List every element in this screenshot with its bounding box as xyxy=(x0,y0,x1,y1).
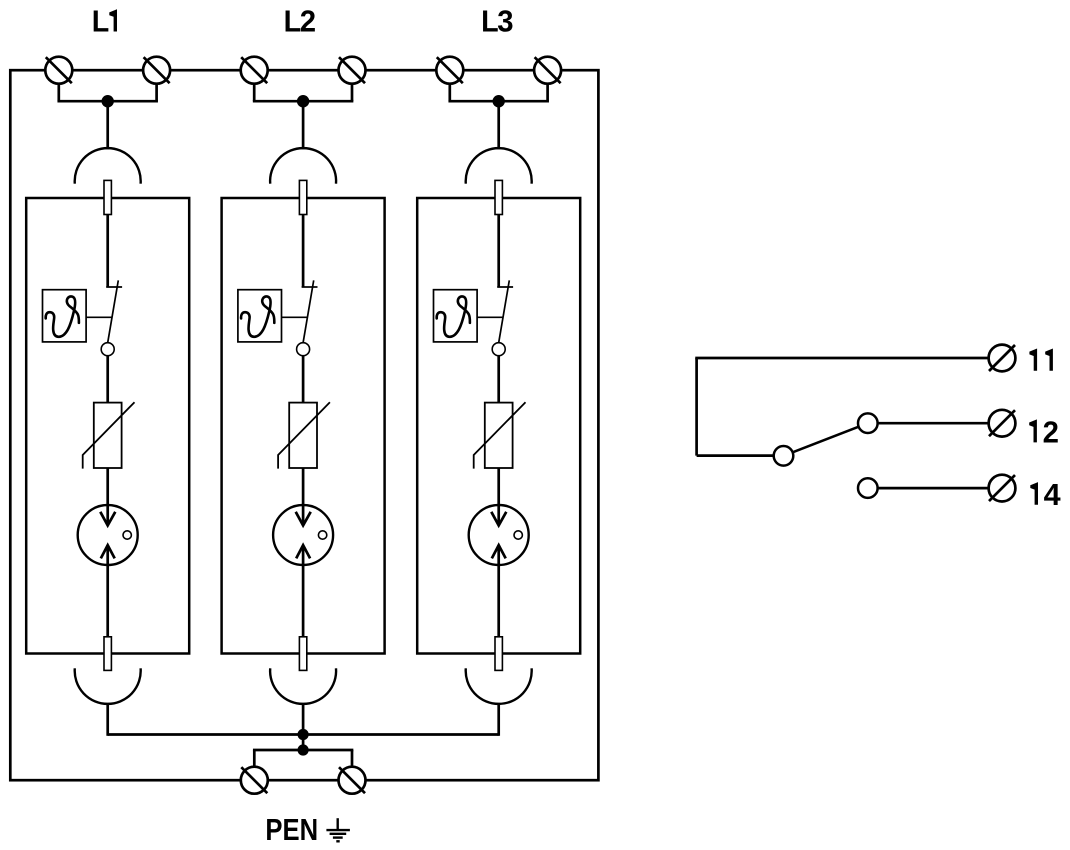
spark gap bottom electrode arrow (module 3) xyxy=(492,545,506,558)
varistor diagonal (module 1) xyxy=(83,402,135,468)
wire joining bar xyxy=(448,100,549,103)
contact pin top (module 2) xyxy=(299,180,306,214)
terminal L3 right xyxy=(534,57,561,84)
changeover switch blade xyxy=(793,427,859,453)
wire varistor to spark gap xyxy=(302,468,305,525)
wire from left terminal down xyxy=(448,84,451,102)
terminal 11 xyxy=(989,345,1016,372)
module 3 protection-module box xyxy=(417,198,580,654)
wire from right terminal down xyxy=(155,84,158,102)
wire bus to PEN branch xyxy=(302,735,305,751)
PEN branch bar xyxy=(253,749,353,752)
plug-in contact arc top (module 2) xyxy=(270,148,336,184)
label 14 xyxy=(1030,477,1060,512)
wire contact 12 to terminal 12 xyxy=(878,422,989,425)
wire varistor to spark gap xyxy=(497,468,500,525)
contact pin bottom (module 1) xyxy=(104,637,111,671)
plug-in contact arc top (module 1) xyxy=(75,148,141,184)
terminal L2 right xyxy=(339,57,366,84)
spark gap circle (module 1) xyxy=(78,505,138,565)
wire disconnector to varistor xyxy=(497,356,500,403)
terminal L1 left xyxy=(45,57,72,84)
wire junction to plug contact xyxy=(302,101,305,149)
spark gap top electrode arrow (module 1) xyxy=(100,512,115,526)
wire contact to PEN bus xyxy=(106,703,109,736)
remote signalling wire to terminal 11 xyxy=(695,357,988,360)
node L1 junction xyxy=(102,95,114,107)
PEN terminal right xyxy=(339,767,366,794)
disconnector switch blade (module 1) xyxy=(108,280,119,342)
wire joining bar xyxy=(253,100,354,103)
link thermal box to blade xyxy=(86,316,112,318)
node PEN bus junction xyxy=(298,729,309,740)
label 12 xyxy=(1029,414,1059,449)
theta (temperature) squiggle (module 1) xyxy=(46,296,79,336)
spark gap trigger electrode small circle (module 3) xyxy=(514,531,522,539)
thermal disconnect box (module 2) xyxy=(238,290,282,342)
plug-in contact arc top (module 3) xyxy=(466,148,532,184)
theta (temperature) squiggle (module 2) xyxy=(241,296,274,336)
contact circle 12 xyxy=(858,413,878,433)
wire pin to disconnector xyxy=(106,215,109,288)
disconnector moving contact circle (module 3) xyxy=(492,343,505,356)
contact pin bottom (module 3) xyxy=(495,637,502,671)
PEN terminal left xyxy=(241,767,268,794)
contact pin bottom (module 2) xyxy=(299,637,306,671)
wire spark gap to bottom pin xyxy=(302,545,305,637)
link thermal box to blade xyxy=(477,316,503,318)
plug-in contact arc bottom (module 1) xyxy=(75,668,141,704)
wire junction to plug contact xyxy=(106,101,109,149)
wire disconnector to varistor xyxy=(302,356,305,403)
svg-text:2: 2 xyxy=(1043,414,1059,449)
wire junction to plug contact xyxy=(497,101,500,149)
node L2 junction xyxy=(297,95,309,107)
terminal 14 xyxy=(989,475,1016,502)
terminal L3 left xyxy=(436,57,463,84)
changeover common contact circle xyxy=(774,446,794,466)
wire pin to disconnector xyxy=(302,215,305,288)
wire from left terminal down xyxy=(253,84,256,102)
disconnector switch blade (module 3) xyxy=(499,280,510,342)
disconnector fixed contact tick (module 3) xyxy=(497,286,513,288)
contact circle 14 xyxy=(858,478,878,498)
spark gap bottom electrode arrow (module 2) xyxy=(296,545,310,558)
disconnector fixed contact tick (module 1) xyxy=(106,286,122,288)
contact pin top (module 1) xyxy=(104,180,111,214)
device enclosure outline xyxy=(10,70,598,780)
wire to PEN terminal right xyxy=(351,750,354,768)
terminal 12 xyxy=(989,410,1016,437)
wire from left terminal down xyxy=(57,84,60,102)
wire spark gap to bottom pin xyxy=(106,545,109,637)
svg-text:PEN: PEN xyxy=(265,812,318,847)
varistor rect (module 2) xyxy=(289,403,317,468)
remote signalling left vertical wire xyxy=(695,358,698,456)
plug-in contact arc bottom (module 2) xyxy=(270,668,336,704)
thermal disconnect box (module 1) xyxy=(43,290,87,342)
wire contact to PEN bus xyxy=(497,703,500,736)
module 1 protection-module box xyxy=(26,198,189,654)
disconnector switch blade (module 2) xyxy=(303,280,314,342)
plug-in contact arc bottom (module 3) xyxy=(466,668,532,704)
wire contact to PEN bus xyxy=(302,703,305,736)
spark gap bottom electrode arrow (module 1) xyxy=(101,545,115,558)
wire from right terminal down xyxy=(546,84,549,102)
spark gap top electrode arrow (module 2) xyxy=(296,512,311,526)
disconnector moving contact circle (module 1) xyxy=(101,343,114,356)
wire to changeover common contact xyxy=(697,454,774,457)
wire spark gap to bottom pin xyxy=(497,545,500,637)
spark gap circle (module 2) xyxy=(273,505,333,565)
thermal disconnect box (module 3) xyxy=(434,290,478,342)
svg-text:L: L xyxy=(481,4,499,39)
varistor diagonal (module 2) xyxy=(278,402,330,468)
spark gap circle (module 3) xyxy=(469,505,529,565)
wire contact 14 to terminal 14 xyxy=(878,487,989,490)
wire pin to disconnector xyxy=(497,215,500,288)
spark gap top electrode arrow (module 3) xyxy=(491,512,506,526)
svg-text:2: 2 xyxy=(300,4,316,39)
disconnector moving contact circle (module 2) xyxy=(297,343,310,356)
link thermal box to blade xyxy=(282,316,308,318)
wire joining bar xyxy=(57,100,158,103)
spark gap trigger electrode small circle (module 2) xyxy=(318,531,326,539)
svg-text:4: 4 xyxy=(1044,477,1061,512)
terminal L1 right xyxy=(143,57,170,84)
node PEN branch junction xyxy=(298,744,309,755)
contact pin top (module 3) xyxy=(495,180,502,214)
wire to PEN terminal left xyxy=(253,750,256,768)
terminal L2 left xyxy=(241,57,268,84)
svg-text:L: L xyxy=(284,4,302,39)
PEN bus bar xyxy=(108,733,499,736)
svg-text:3: 3 xyxy=(497,4,513,39)
module 2 protection-module box xyxy=(222,198,385,654)
theta (temperature) squiggle (module 3) xyxy=(437,296,470,336)
spark gap trigger electrode small circle (module 1) xyxy=(123,531,131,539)
varistor rect (module 3) xyxy=(485,403,513,468)
wire varistor to spark gap xyxy=(106,468,109,525)
ground symbol xyxy=(326,818,350,841)
wire from right terminal down xyxy=(351,84,354,102)
node L3 junction xyxy=(493,95,505,107)
label 11 xyxy=(1029,349,1053,371)
varistor diagonal (module 3) xyxy=(474,402,526,468)
wire disconnector to varistor xyxy=(106,356,109,403)
disconnector fixed contact tick (module 2) xyxy=(302,286,318,288)
varistor rect (module 1) xyxy=(94,403,122,468)
svg-text:L: L xyxy=(92,4,110,39)
